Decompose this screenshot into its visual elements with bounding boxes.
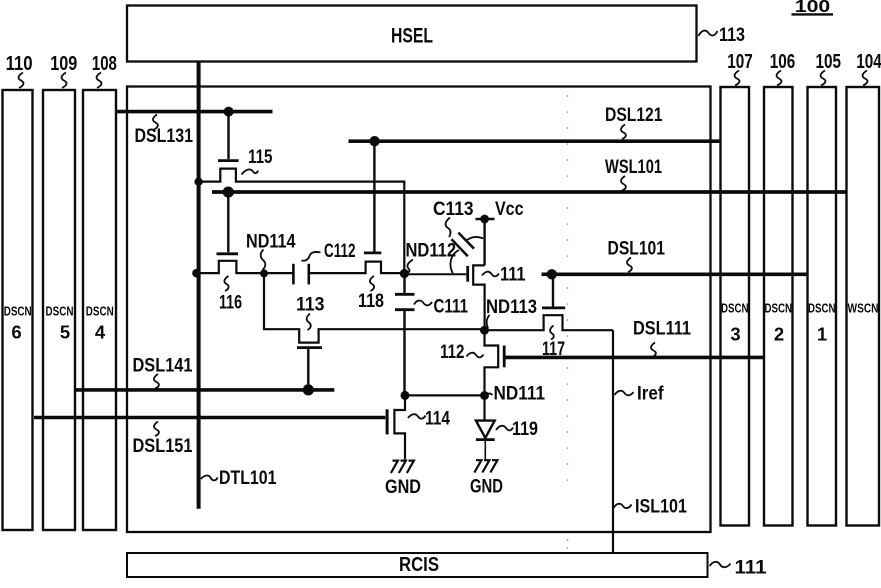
svg-text:105: 105 — [816, 51, 842, 73]
transistor 117 (gate from DSL101) — [485, 276, 614, 330]
label DTL101 — [201, 467, 277, 489]
label 104 — [856, 51, 881, 86]
svg-text:104: 104 — [856, 51, 881, 73]
svg-text:DSCN: DSCN — [765, 301, 793, 316]
svg-text:1: 1 — [817, 324, 827, 345]
node ND111 junction — [480, 391, 489, 400]
block DSCN5 109 — [43, 90, 75, 530]
block RCIS U111 — [127, 553, 708, 577]
label 116 — [219, 276, 242, 314]
label C111 — [414, 296, 468, 318]
label 117 — [542, 326, 565, 361]
svg-text:118: 118 — [358, 290, 384, 312]
transistor 114 (gate from DSL151, vertical) — [387, 395, 405, 459]
figure number 100 — [792, 0, 834, 16]
block DSCN4 108 — [83, 90, 116, 530]
svg-text:Vcc: Vcc — [495, 198, 524, 220]
wire DSL151 — [34, 416, 385, 420]
label 110 — [6, 53, 33, 88]
junction DTL101 x 116 wire — [192, 269, 201, 278]
svg-text:111: 111 — [500, 264, 526, 286]
transistor 116 (gate from WSL101) — [197, 194, 293, 273]
transistor 111 (drive transistor, vertical) — [468, 265, 485, 330]
svg-text:114: 114 — [425, 408, 450, 430]
svg-text:RCIS: RCIS — [399, 554, 439, 576]
svg-text:106: 106 — [770, 51, 796, 73]
diode 119 (light emitting element) — [476, 396, 495, 460]
svg-text:4: 4 — [95, 322, 106, 343]
svg-text:C113: C113 — [433, 198, 474, 220]
Vcc terminal — [476, 215, 495, 266]
label 113 — [296, 294, 325, 331]
svg-text:WSCN: WSCN — [848, 301, 879, 316]
svg-text:113: 113 — [719, 24, 745, 46]
label ND113 — [486, 296, 537, 328]
transistor 115 (gate from DSL131) — [199, 113, 405, 273]
svg-text:ND114: ND114 — [246, 231, 296, 253]
svg-text:109: 109 — [50, 53, 77, 75]
transistor 118 (gate from DSL121) — [309, 143, 405, 273]
wire DSL131 — [115, 110, 273, 114]
svg-text:DSL131: DSL131 — [135, 125, 194, 147]
wire DSL141 — [76, 388, 335, 392]
transistor 112 (gate from DSL111, vertical) — [485, 330, 505, 395]
svg-text:WSL101: WSL101 — [605, 156, 662, 178]
label 109 — [50, 53, 77, 88]
svg-text:5: 5 — [60, 322, 70, 343]
junction on DSL141 — [303, 384, 314, 395]
node between C111 and 114 junction — [401, 391, 410, 400]
svg-text:DSL141: DSL141 — [133, 355, 193, 377]
node ND113 junction — [480, 326, 489, 335]
wire Iref / ISL101 (vertical to RCIS) — [612, 330, 614, 553]
leader 111 for RCIS — [710, 557, 767, 579]
label DSL151 — [133, 422, 193, 458]
svg-text:C112: C112 — [324, 240, 356, 262]
label 111 — [482, 264, 526, 286]
junction DTL101 x 115 wire — [194, 178, 202, 186]
wire DTL101 (vertical data line from HSEL) — [197, 62, 201, 509]
node ND114 junction — [260, 269, 268, 277]
svg-text:111: 111 — [735, 557, 767, 579]
svg-text:DSL121: DSL121 — [605, 104, 663, 126]
block WSCN 104 — [847, 87, 880, 526]
svg-text:DSCN: DSCN — [721, 301, 749, 316]
junction on DSL131 — [224, 107, 234, 117]
svg-text:3: 3 — [730, 324, 740, 345]
svg-text:116: 116 — [219, 292, 242, 314]
ground for 114 — [385, 461, 421, 498]
junction on DSL121 — [369, 136, 379, 146]
label 114 — [408, 408, 450, 430]
svg-text:DSCN: DSCN — [46, 304, 74, 319]
svg-text:GND: GND — [385, 476, 421, 498]
svg-text:DTL101: DTL101 — [219, 467, 277, 489]
scan artifact dotted column — [567, 95, 569, 549]
svg-text:107: 107 — [727, 51, 753, 73]
junction on DSL101 — [547, 269, 557, 279]
wire DSL121 — [349, 139, 722, 143]
label 118 — [358, 276, 384, 312]
svg-text:GND: GND — [470, 476, 503, 498]
label ISL101 — [614, 496, 688, 518]
label WSL101 — [605, 156, 662, 191]
svg-text:DSCN: DSCN — [808, 301, 836, 316]
svg-text:6: 6 — [11, 322, 21, 343]
label C113 — [433, 198, 474, 237]
wire DSL101 — [542, 272, 808, 276]
transistor 113 (inverted, gate to DSL141) — [297, 348, 322, 388]
svg-text:ND112: ND112 — [406, 240, 457, 262]
leader 113 for HSEL — [699, 24, 746, 46]
svg-text:Iref: Iref — [637, 383, 664, 405]
svg-text:DSL111: DSL111 — [633, 318, 691, 340]
capacitor C111 — [395, 274, 415, 394]
junction on WSL101 — [223, 187, 234, 198]
svg-text:119: 119 — [512, 418, 538, 440]
label 107 — [727, 51, 753, 86]
wire ND112 to gate of 111 — [404, 273, 466, 275]
label ND114 — [246, 231, 296, 271]
label C112 — [302, 240, 356, 262]
label 112 — [440, 341, 484, 363]
label DSL131 — [135, 115, 194, 148]
label ND112 — [406, 240, 457, 274]
svg-text:DSCN: DSCN — [4, 304, 32, 319]
svg-text:DSL101: DSL101 — [608, 238, 666, 260]
svg-text:2: 2 — [774, 324, 784, 345]
svg-text:ISL101: ISL101 — [635, 496, 687, 518]
label DSL141 — [133, 355, 193, 389]
capacitor C113 (parasitic, diagonal) — [450, 233, 483, 274]
label 119 — [496, 418, 538, 440]
svg-text:DSCN: DSCN — [86, 304, 114, 319]
wire DSL111 — [506, 356, 764, 360]
svg-text:108: 108 — [92, 53, 117, 75]
ground for 119 — [470, 460, 503, 497]
label DSL121 — [605, 104, 663, 139]
svg-text:115: 115 — [248, 146, 273, 168]
svg-text:C111: C111 — [434, 296, 469, 318]
block HSEL U113 — [127, 6, 697, 62]
block DSCN6 110 — [3, 90, 33, 530]
label 108 — [92, 53, 117, 88]
node ND112 junction — [400, 269, 409, 278]
svg-text:110: 110 — [6, 53, 33, 75]
label 105 — [816, 51, 842, 86]
block DSCN3 107 — [721, 87, 750, 526]
capacitor C112 — [293, 264, 308, 285]
main pixel-array box — [127, 87, 711, 533]
label ND111 — [486, 383, 545, 405]
block DSCN2 106 — [764, 87, 793, 526]
wire WSL101 — [212, 190, 846, 194]
block DSCN1 105 — [808, 87, 837, 526]
svg-text:112: 112 — [440, 341, 465, 363]
label DSL111 — [633, 318, 691, 358]
label 115 — [242, 146, 273, 175]
svg-text:ND111: ND111 — [494, 383, 546, 405]
svg-text:ND113: ND113 — [486, 296, 537, 318]
label Iref — [615, 383, 664, 405]
label DSL101 — [608, 238, 666, 273]
label 106 — [770, 51, 796, 86]
svg-text:HSEL: HSEL — [391, 25, 433, 48]
wire node to ND111 — [405, 394, 485, 396]
wire ND114 to transistor 113 channel — [264, 273, 485, 342]
svg-text:113: 113 — [296, 294, 325, 316]
svg-text:DSL151: DSL151 — [133, 435, 193, 457]
